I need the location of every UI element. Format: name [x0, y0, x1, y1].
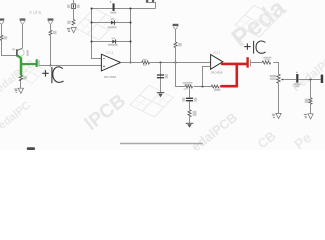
wire	[22, 24, 24, 48]
capacitor C5	[182, 98, 197, 102]
ground G1	[14, 88, 23, 93]
ground G5	[272, 113, 281, 118]
pot P3	[48, 18, 54, 24]
ground G3	[157, 93, 165, 98]
node junction	[49, 64, 51, 66]
resistor R10	[262, 57, 271, 64]
capacitor C4	[157, 74, 168, 78]
svg-text:3 of 6: 3 of 6	[29, 10, 41, 16]
wire to jack	[299, 79, 321, 81]
ground G2	[67, 28, 76, 33]
title block line	[120, 143, 203, 145]
wire	[1, 24, 3, 35]
diode D1	[108, 18, 117, 28]
node junction	[159, 61, 161, 63]
pot P2	[20, 18, 26, 24]
wire wiper	[285, 79, 296, 81]
wire U2 inverting	[203, 67, 211, 87]
transistor Q1	[12, 48, 28, 57]
wire cap branch	[160, 63, 162, 93]
annotation capacitor C-add2	[244, 41, 265, 54]
resistor R1	[0, 35, 7, 40]
annotation capacitor C-add1	[42, 67, 63, 83]
op-amp U2	[211, 50, 223, 74]
resistor R9	[188, 110, 197, 117]
capacitor C6 red plate	[246, 57, 248, 67]
svg-text:JRC4558: JRC4558	[104, 75, 117, 79]
pot P1	[0, 18, 4, 24]
wire	[175, 30, 177, 42]
wire corner to pot	[273, 63, 278, 75]
wire pot to ground	[278, 83, 280, 113]
wire feedback drop	[176, 63, 186, 87]
wire	[194, 86, 212, 88]
wire	[189, 117, 191, 123]
resistor R2 emitter	[19, 75, 26, 81]
resistor R7	[183, 82, 193, 90]
wire	[310, 104, 312, 113]
bottom edge mark	[27, 147, 35, 150]
wire output U1	[121, 62, 142, 64]
wire	[50, 35, 52, 65]
capacitor C1 green plate	[36, 59, 38, 67]
capacitor C7	[294, 72, 301, 88]
wire level branch	[310, 80, 312, 98]
wire green vertical	[20, 58, 23, 76]
wire cap branch mid	[189, 88, 191, 98]
wire	[2, 40, 17, 55]
wire	[50, 24, 52, 30]
ground G4	[186, 123, 194, 127]
wire red output	[221, 64, 246, 86]
wire main signal	[39, 65, 101, 67]
svg-text:JRC4558: JRC4558	[211, 70, 223, 74]
wire left vertical	[92, 9, 102, 59]
pot P4	[173, 24, 179, 30]
wire emitter green	[17, 55, 21, 58]
wire	[20, 81, 22, 88]
wire hook top right	[146, 3, 156, 9]
svg-text:IC1.1: IC1.1	[107, 50, 114, 54]
resistor R11	[305, 98, 312, 105]
wire after C6	[251, 62, 262, 64]
svg-text:IC1.2: IC1.2	[214, 50, 221, 54]
wire to U2	[150, 62, 211, 64]
capacitor C1 gray plate	[38, 60, 40, 66]
wire rail mid	[92, 22, 131, 24]
capacitor C2 top	[67, 4, 80, 9]
resistor R3	[49, 30, 57, 35]
node junctions power	[90, 7, 131, 63]
capacitor C6 gray plate	[250, 60, 252, 67]
node junction	[309, 78, 311, 80]
wire	[73, 0, 75, 4]
pad SW2	[152, 0, 154, 2]
jack J1	[321, 75, 324, 83]
wire	[189, 101, 191, 109]
ground G6	[304, 114, 313, 119]
WATERMARK	[0, 0, 325, 154]
resistor R5	[142, 59, 150, 66]
resistor R4	[67, 20, 75, 26]
op-amp U1	[101, 50, 120, 79]
pad SW1	[146, 0, 148, 2]
wire rail top	[92, 8, 156, 10]
wire green horizontal	[21, 63, 36, 65]
capacitor C3	[110, 1, 117, 14]
diode D2 LED	[108, 38, 118, 46]
pot VR1	[270, 74, 285, 83]
resistor R8	[211, 85, 220, 91]
wire feedback top	[92, 41, 131, 43]
wire right vertical	[130, 9, 132, 63]
resistor R6	[174, 42, 182, 48]
node junction	[174, 61, 176, 63]
wire	[175, 48, 177, 63]
node junction	[201, 85, 203, 87]
